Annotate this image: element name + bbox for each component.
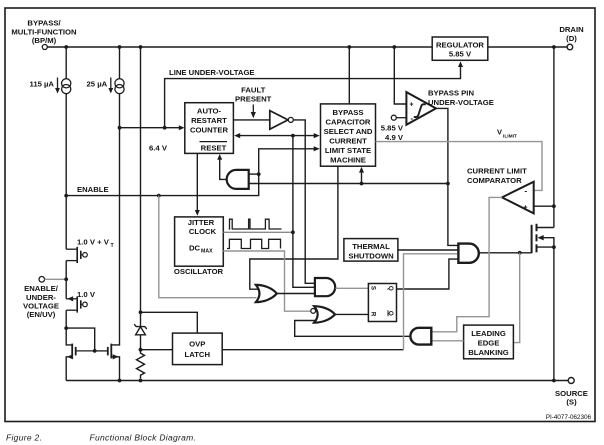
svg-text:CURRENT LIMIT: CURRENT LIMIT <box>467 167 527 176</box>
wire AND U3 output into state machine <box>259 146 320 174</box>
waveform dcmax <box>227 239 281 248</box>
comparator U5 current limit <box>467 167 534 214</box>
wire inverter output to AND U7 input (fault) <box>293 120 315 283</box>
resistor R1 <box>137 350 145 383</box>
wire arrow node A into state machine bottom <box>359 167 364 184</box>
svg-text:DC: DC <box>189 244 201 253</box>
svg-text:Q: Q <box>387 286 394 291</box>
transistor Q4 mirror left <box>66 328 95 380</box>
AND U10 gate-drive gate <box>458 244 478 263</box>
svg-text:JITTER: JITTER <box>188 218 215 227</box>
svg-text:FAULT: FAULT <box>241 86 265 95</box>
svg-text:EDGE: EDGE <box>478 339 500 348</box>
wire counter to oscillator arrow <box>195 153 200 215</box>
wire enable gray branch to OR U8 <box>159 196 257 298</box>
wire U4 output down to node A <box>436 108 448 183</box>
svg-text:-: - <box>411 114 414 123</box>
wire EN node to mirror gates <box>66 328 96 353</box>
flip-flop U6 SR latch <box>368 284 396 322</box>
comparator U4 bypass pin under-voltage <box>381 89 494 143</box>
wire zener rail vertical <box>139 47 143 314</box>
box state machine <box>321 104 376 166</box>
transistor Q1 output MOSFET <box>532 224 556 253</box>
svg-text:OSCILLATOR: OSCILLATOR <box>174 267 224 276</box>
svg-text:+: + <box>410 102 414 109</box>
wire LEB output to AND U12 <box>431 340 463 342</box>
svg-text:DRAIN: DRAIN <box>559 25 584 34</box>
box auto-restart counter <box>185 103 234 154</box>
label fault present <box>233 86 271 120</box>
wire node A down to AND U10 top input <box>448 184 459 246</box>
svg-text:PRESENT: PRESENT <box>235 95 272 104</box>
label figure caption <box>6 433 196 443</box>
svg-text:S: S <box>369 286 376 290</box>
label PI number <box>546 414 592 421</box>
wire drain vertical <box>553 47 555 228</box>
wire left vertical from I1 down to T1 <box>65 94 67 249</box>
regulator U1 5.85V <box>432 37 488 60</box>
svg-text:MULTI-FUNCTION: MULTI-FUNCTION <box>11 28 77 37</box>
svg-text:6.4 V: 6.4 V <box>149 144 168 153</box>
svg-text:CLOCK: CLOCK <box>189 227 217 236</box>
transistor Q5 mirror right <box>95 344 120 381</box>
wire zener cathode to OVP latch <box>141 349 173 351</box>
transistor Q2 1.0V+VT <box>66 238 114 280</box>
svg-text:AUTO-: AUTO- <box>197 107 222 116</box>
wire clock vertical to AND U7 <box>293 136 315 288</box>
wire U7 output to flip-flop S <box>335 287 368 289</box>
svg-text:115 µA: 115 µA <box>29 80 54 89</box>
current source I2 25uA <box>87 47 125 94</box>
svg-text:5.85 V: 5.85 V <box>449 49 472 58</box>
svg-text:ENABLE: ENABLE <box>77 185 109 194</box>
wire enable line <box>64 172 260 197</box>
wire EN/UV pin to node <box>45 277 69 281</box>
svg-text:5.85 V: 5.85 V <box>381 124 404 133</box>
wire source rail <box>66 379 568 383</box>
wire clock output to clock vertical <box>223 230 294 234</box>
svg-text:LIMIT STATE: LIMIT STATE <box>325 146 371 155</box>
svg-text:BLANKING: BLANKING <box>468 348 509 357</box>
node EN/UV pin <box>23 277 59 320</box>
box OVP latch <box>173 333 223 365</box>
svg-text:BYPASS/: BYPASS/ <box>27 19 61 28</box>
svg-text:LATCH: LATCH <box>185 350 211 359</box>
svg-text:BYPASS: BYPASS <box>332 108 363 117</box>
wire top rail regulator to drain pin <box>488 45 567 49</box>
wire U5 plus input to drain sense <box>534 204 556 208</box>
node BP/M pin <box>11 19 77 50</box>
svg-text:R: R <box>369 312 376 317</box>
wire U10 output to MOSFET gate <box>479 251 532 255</box>
svg-text:COMPARATOR: COMPARATOR <box>467 176 522 185</box>
svg-text:(BP/M): (BP/M) <box>32 36 57 45</box>
label Vilimit <box>497 128 517 140</box>
wire Vilimit state machine to comparator minus <box>376 142 543 191</box>
svg-text:REGULATOR: REGULATOR <box>436 40 484 49</box>
wire OVP latch output to AND U10 input <box>222 254 458 350</box>
svg-text:-: - <box>525 187 528 196</box>
box thermal shutdown <box>344 239 398 262</box>
svg-text:CURRENT: CURRENT <box>329 137 367 146</box>
svg-text:UNDER-: UNDER- <box>26 293 56 302</box>
svg-text:BYPASS PIN: BYPASS PIN <box>428 89 474 98</box>
svg-text:MAX: MAX <box>201 249 213 255</box>
wire line under-voltage <box>165 61 463 128</box>
svg-text:(D): (D) <box>566 34 577 43</box>
wire U5 output to AND U12 input <box>431 197 502 331</box>
current source I1 115uA <box>29 47 70 94</box>
svg-text:V: V <box>497 128 502 137</box>
diode D1 zener <box>134 314 147 352</box>
svg-text:Functional Block Diagram.: Functional Block Diagram. <box>90 433 197 443</box>
svg-text:RESET: RESET <box>201 143 227 152</box>
svg-text:OVP: OVP <box>189 339 205 348</box>
OR U8 enable gate <box>256 285 277 302</box>
svg-text:RESTART: RESTART <box>191 116 227 125</box>
wire flip-flop Q to AND U10 input <box>397 259 459 289</box>
node DRAIN pin <box>559 25 584 50</box>
svg-text:LINE UNDER-VOLTAGE: LINE UNDER-VOLTAGE <box>169 68 255 77</box>
svg-text:(S): (S) <box>566 398 577 407</box>
wire gate signal to leading edge blanking <box>513 253 519 343</box>
AND U7 pwm gate <box>315 278 335 296</box>
svg-text:SHUTDOWN: SHUTDOWN <box>348 252 394 261</box>
svg-text:CAPACITOR: CAPACITOR <box>326 118 371 127</box>
svg-text:Figure 2.: Figure 2. <box>6 433 42 443</box>
box oscillator <box>174 217 224 276</box>
wire zener node to OVP latch top <box>141 312 198 333</box>
svg-text:COUNTER: COUNTER <box>190 126 228 135</box>
svg-text:SELECT AND: SELECT AND <box>324 127 373 136</box>
wire thermal shutdown to AND U10 <box>398 249 459 251</box>
wire state machine bottom to OR U8 input <box>250 166 338 289</box>
svg-text:LEADING: LEADING <box>471 329 506 338</box>
wire U9 output to flip-flop R <box>335 313 368 315</box>
svg-text:PI-4077-062306: PI-4077-062306 <box>546 414 592 421</box>
wire AND U12 output to OR U9 input <box>295 321 411 337</box>
wire top rail BP/M to regulator <box>47 45 432 49</box>
label enable <box>77 185 109 194</box>
svg-text:(EN/UV): (EN/UV) <box>27 310 56 319</box>
svg-text:T: T <box>111 243 115 249</box>
svg-text:THERMAL: THERMAL <box>352 242 390 251</box>
wire U3 output to RESET <box>217 154 227 179</box>
OR U9 reset-or gate <box>311 306 335 322</box>
svg-text:25 µA: 25 µA <box>87 80 108 89</box>
svg-text:1.0 V + V: 1.0 V + V <box>77 238 110 247</box>
wire vertical from I2 down to mirror Q4 drain <box>111 94 121 345</box>
inverter U2 <box>270 111 294 130</box>
svg-text:ILIMIT: ILIMIT <box>503 134 517 140</box>
svg-text:UNDER-VOLTAGE: UNDER-VOLTAGE <box>428 98 494 107</box>
svg-text:ENABLE/: ENABLE/ <box>24 284 59 293</box>
wire rail to state machine top <box>348 47 350 104</box>
waveform clock <box>229 219 282 229</box>
AND U3 reset gate <box>227 170 259 189</box>
wire node A horizontal (fault/uv node) <box>249 182 450 186</box>
wire dcmax to OR U9 inverted input <box>223 251 310 311</box>
svg-text:+: + <box>524 205 528 212</box>
wire rail to UV comparator plus input <box>394 47 406 104</box>
svg-text:4.9 V: 4.9 V <box>385 133 404 142</box>
svg-text:1.0 V: 1.0 V <box>77 290 96 299</box>
svg-text:MACHINE: MACHINE <box>330 156 366 165</box>
wire 6.4V node into auto-restart counter <box>120 125 185 152</box>
node SOURCE pin <box>555 378 588 407</box>
wire bidirectional arrow counter to state machine <box>234 133 320 138</box>
wire source vertical to rail <box>553 247 555 380</box>
AND U12 blanking gate <box>410 328 431 345</box>
transistor Q3 1.0V <box>64 279 96 330</box>
box leading edge blanking <box>464 325 514 359</box>
wire U8 output to AND U7 input <box>277 293 315 295</box>
